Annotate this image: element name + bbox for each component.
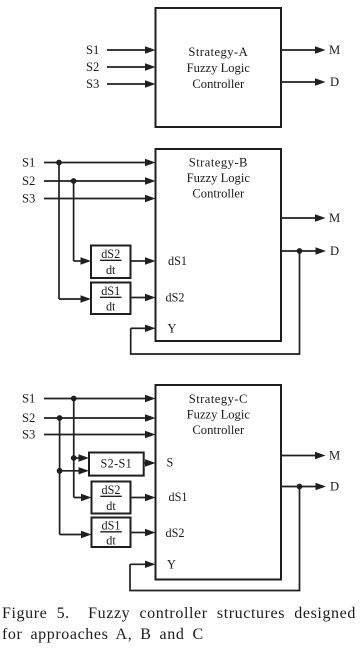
derivative block dS2/dt (B) [91, 246, 131, 279]
wire feedback path (B) [131, 251, 300, 354]
wire dS1/dt output to port dS2 (C) [131, 529, 156, 536]
label input S3 (A) [86, 77, 99, 91]
label Strategy-C line2 [187, 407, 251, 421]
svg-text:Strategy-C: Strategy-C [189, 392, 248, 406]
wire S3 into A [107, 80, 156, 87]
difference block S2-S1 (C) [89, 453, 144, 476]
label dS1 numerator (B) [101, 284, 120, 298]
port label dS2 (B) [166, 291, 185, 305]
svg-text:Fuzzy Logic: Fuzzy Logic [187, 171, 251, 185]
wire output M (A) [281, 46, 326, 53]
junction S1 branch (C) [71, 396, 77, 402]
wire S2 into C [44, 414, 156, 421]
label output M (A) [329, 43, 340, 57]
svg-text:S: S [167, 456, 174, 470]
wire S1 into C [44, 395, 156, 402]
wire into dS1/dt block (B) [59, 295, 91, 302]
label output M (B) [329, 211, 340, 225]
svg-text:Controller: Controller [192, 186, 245, 200]
wire feedback into port Y (C) [130, 561, 156, 568]
svg-text:Strategy-A: Strategy-A [188, 45, 248, 59]
label dS2 numerator (C) [102, 483, 121, 497]
port label dS1 (B) [168, 254, 187, 268]
wire S2 branch down to dS2/dt (B) [73, 181, 75, 261]
svg-text:S1: S1 [22, 156, 35, 170]
label input S2 (C) [22, 411, 35, 425]
wire S1 into S2-S1 upper (C) [74, 454, 89, 461]
label output M (C) [329, 449, 340, 463]
wire dS2/dt output to port dS1 (B) [131, 257, 156, 264]
wire output M (C) [281, 452, 326, 459]
svg-text:M: M [329, 211, 340, 225]
svg-text:S3: S3 [22, 192, 35, 206]
derivative block dS1/dt (B) [91, 283, 131, 315]
junction S1 to S2-S1 (C) [71, 455, 77, 461]
svg-text:Controller: Controller [192, 423, 245, 437]
label Strategy-C line1 [189, 392, 248, 406]
svg-text:S2: S2 [22, 174, 35, 188]
derivative block dS1/dt (C) [92, 518, 131, 548]
svg-text:dS1: dS1 [168, 254, 187, 268]
port label dS1 (C) [169, 490, 188, 504]
wire feedback path (C) [130, 487, 300, 591]
svg-text:Strategy-B: Strategy-B [189, 156, 248, 170]
label dt denominator (C) [106, 499, 116, 513]
junction D feedback (B) [297, 248, 303, 254]
controller block B (Strategy-B) [156, 149, 282, 341]
label output D (C) [330, 480, 339, 494]
svg-text:dS2: dS2 [166, 291, 185, 305]
controller block A (Strategy-A) [156, 8, 282, 127]
wire S2 into S2-S1 lower (C) [60, 467, 89, 474]
label dt denominator 2 (C) [106, 534, 116, 548]
svg-text:D: D [330, 75, 339, 89]
label output D (A) [330, 75, 339, 89]
svg-text:D: D [330, 244, 339, 258]
fraction bar dS2/dt (C) [100, 495, 122, 497]
svg-text:dS2: dS2 [166, 526, 185, 540]
label Strategy-B line3 [192, 186, 245, 200]
svg-text:dt: dt [106, 499, 116, 513]
label input S1 (B) [22, 156, 35, 170]
wire S2 into dS1/dt (C) [60, 531, 92, 538]
svg-text:dt: dt [106, 300, 116, 314]
svg-text:S2-S1: S2-S1 [101, 456, 133, 470]
wire S3 into C [44, 431, 156, 438]
svg-text:D: D [330, 480, 339, 494]
wire output D (B) [281, 247, 326, 254]
junction S1 branch (B) [56, 160, 62, 166]
label dS1 numerator (C) [102, 518, 121, 532]
svg-text:Fuzzy Logic: Fuzzy Logic [187, 407, 251, 421]
label input S3 (B) [22, 192, 35, 206]
svg-text:Controller: Controller [192, 77, 245, 91]
wire output D (C) [281, 483, 326, 490]
svg-text:dt: dt [106, 534, 116, 548]
svg-text:S2: S2 [22, 411, 35, 425]
junction S2 to S2-S1 (C) [57, 468, 63, 474]
controller block C (Strategy-C) [156, 385, 282, 580]
fraction bar dS2/dt (B) [100, 259, 122, 261]
port label S (C) [167, 456, 174, 470]
svg-text:dS1: dS1 [102, 518, 121, 532]
label Strategy-B line1 [189, 156, 248, 170]
label input S1 (A) [86, 43, 99, 57]
port label dS2 (C) [166, 526, 185, 540]
label S2-S1 (C) [101, 456, 133, 470]
label Strategy-A line2 [187, 61, 251, 75]
wire S1 branch down to dS1/dt (B) [58, 163, 60, 300]
svg-text:S1: S1 [22, 392, 35, 406]
wire S2 into B [44, 177, 156, 184]
wire S1 into B [44, 159, 156, 166]
wire dS2/dt output to port dS1 (C) [131, 494, 156, 501]
junction S2 branch (B) [71, 178, 77, 184]
label Strategy-B line2 [187, 171, 251, 185]
label Strategy-A line3 [192, 77, 245, 91]
figure caption [2, 604, 360, 645]
label input S1 (C) [22, 392, 35, 406]
wire feedback into port Y (B) [131, 325, 156, 332]
svg-text:Y: Y [167, 557, 176, 571]
svg-text:S1: S1 [86, 43, 99, 57]
svg-text:M: M [329, 449, 340, 463]
wire S1 branch down (C) [73, 399, 75, 498]
svg-text:dS2: dS2 [102, 483, 121, 497]
svg-text:S3: S3 [86, 77, 99, 91]
label input S2 (B) [22, 174, 35, 188]
label input S2 (A) [86, 60, 99, 74]
wire S1 into A [107, 46, 156, 53]
wire dS1/dt output to port dS2 (B) [131, 294, 156, 301]
label dS2 numerator (B) [101, 247, 120, 261]
svg-text:dS2: dS2 [101, 247, 120, 261]
svg-text:M: M [329, 43, 340, 57]
wire output M (B) [281, 214, 326, 221]
wire S2 branch down (C) [59, 418, 61, 535]
svg-text:S3: S3 [22, 428, 35, 442]
port label Y (C) [167, 557, 176, 571]
svg-text:Y: Y [168, 321, 177, 335]
label Strategy-A line1 [188, 45, 248, 59]
label dt denominator (B) [106, 263, 116, 277]
label input S3 (C) [22, 428, 35, 442]
label output D (B) [330, 244, 339, 258]
label Strategy-C line3 [192, 423, 245, 437]
wire S1 into dS2/dt (C) [74, 494, 92, 501]
port label Y (B) [168, 321, 177, 335]
wire into dS2/dt block (B) [74, 257, 91, 264]
wire S2 into A [107, 63, 156, 70]
label dt denominator 2 (B) [106, 300, 116, 314]
svg-text:dS1: dS1 [101, 284, 120, 298]
wire S3 into B [44, 195, 156, 202]
svg-text:dS1: dS1 [169, 490, 188, 504]
svg-text:dt: dt [106, 263, 116, 277]
derivative block dS2/dt (C) [92, 482, 131, 514]
fraction bar dS1/dt (B) [100, 296, 122, 298]
wire S2-S1 output to port S (C) [144, 459, 156, 466]
junction S2 branch (C) [57, 415, 63, 421]
wire output D (A) [281, 78, 326, 85]
svg-text:S2: S2 [86, 60, 99, 74]
svg-text:Fuzzy Logic: Fuzzy Logic [187, 61, 251, 75]
fraction bar dS1/dt (C) [100, 531, 122, 533]
junction D feedback (C) [297, 484, 303, 490]
